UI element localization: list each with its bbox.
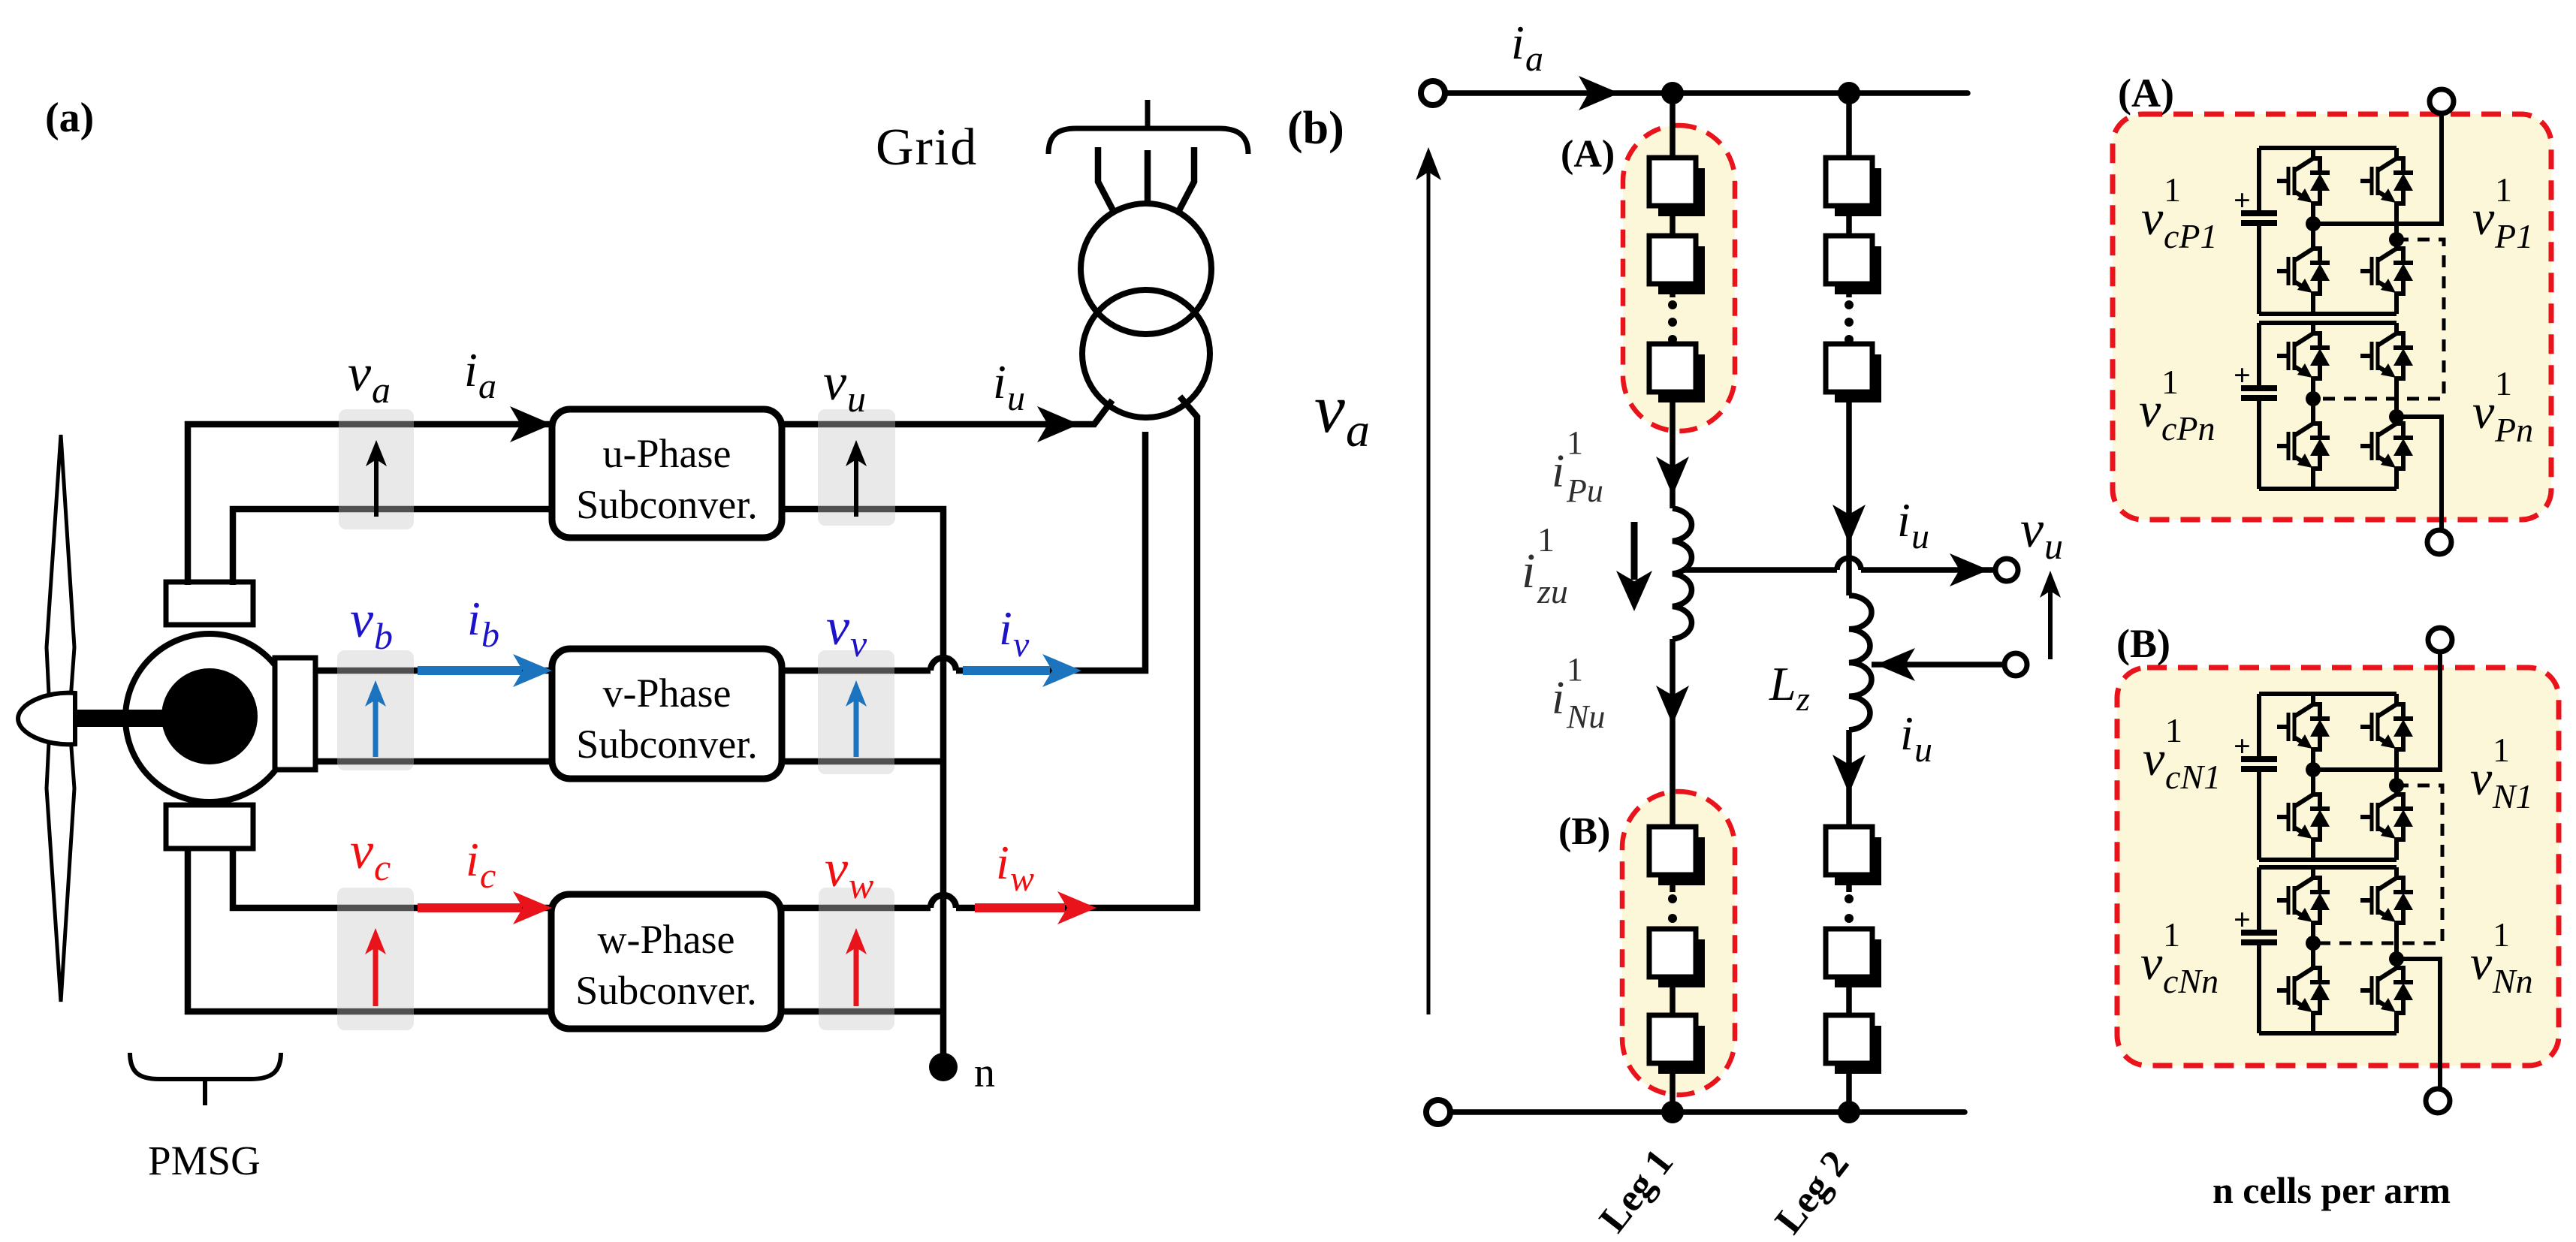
wire a-phase top: [188, 424, 552, 585]
svg-text:i: i: [1897, 493, 1911, 547]
svg-text:v-Phase: v-Phase: [603, 671, 731, 716]
svg-text:Nu: Nu: [1566, 698, 1605, 735]
arrow iw: [975, 891, 1096, 924]
svg-text:v: v: [2470, 936, 2493, 990]
cell rails: [2259, 867, 2397, 1033]
label izu: [1522, 520, 1568, 610]
svg-text:n: n: [974, 1050, 995, 1096]
label vc: [350, 822, 391, 888]
svg-text:Subconver.: Subconver.: [576, 482, 757, 527]
terminal box bottom: [166, 805, 253, 849]
svg-text:(B): (B): [1558, 810, 1610, 853]
terminal top-left: [1421, 81, 1445, 105]
svg-text:b: b: [481, 615, 499, 655]
leg link right: [2394, 943, 2399, 957]
svg-text:w: w: [1010, 859, 1034, 899]
igbt upper-right: [2360, 323, 2413, 399]
va reference arrow: [1427, 169, 1431, 1014]
svg-text:1: 1: [2161, 363, 2179, 401]
svg-text:v: v: [850, 623, 867, 665]
terminal bottom-left: [1426, 1100, 1450, 1124]
arrow ib: [418, 654, 552, 687]
svg-text:Pn: Pn: [2494, 411, 2533, 449]
svg-text:v: v: [2020, 501, 2044, 559]
svg-text:w-Phase: w-Phase: [598, 917, 735, 962]
svg-text:i: i: [1552, 446, 1564, 497]
generator circle: [125, 634, 294, 802]
terminal vu: [1995, 559, 2018, 581]
svg-text:n cells per arm: n cells per arm: [2213, 1169, 2451, 1211]
panel (A) dashed box: [2113, 114, 2551, 520]
label vb: [350, 591, 393, 657]
label iw: [996, 836, 1034, 899]
svg-text:Nn: Nn: [2492, 962, 2533, 1000]
label vcNn: [2140, 915, 2219, 1000]
label vcP1: [2141, 170, 2218, 255]
svg-text:v: v: [2472, 191, 2495, 246]
svg-text:v: v: [2470, 751, 2493, 806]
svg-text:a: a: [1525, 39, 1543, 79]
leg link left: [2311, 399, 2315, 413]
panel B terminal top: [2428, 628, 2452, 652]
svg-text:+: +: [2234, 729, 2251, 763]
capacitor: [2257, 323, 2261, 489]
node n: [929, 1053, 958, 1081]
svg-text:cN1: cN1: [2165, 758, 2221, 796]
vu polarity arrow: [2048, 584, 2053, 659]
wire b-phase bottom: [315, 758, 552, 765]
svg-text:+: +: [2234, 903, 2251, 936]
wind turbine blade upper: [47, 435, 74, 710]
leg 2 wire segments: [1846, 93, 1852, 1112]
igbt lower-right: [2360, 784, 2413, 860]
leg link right: [2394, 399, 2399, 413]
label iu: [993, 355, 1025, 418]
svg-text:+: +: [2234, 183, 2251, 217]
svg-text:b: b: [374, 615, 393, 657]
svg-text:1: 1: [2164, 170, 2181, 209]
arrow iv: [963, 654, 1081, 687]
igbt upper-left: [2277, 867, 2330, 943]
top bus wire: [1446, 90, 1968, 96]
svg-text:(A): (A): [1561, 133, 1615, 176]
svg-text:v: v: [825, 840, 849, 898]
svg-text:P1: P1: [2494, 217, 2533, 255]
label ia (b): [1511, 16, 1543, 79]
stator terminal box right: [275, 658, 315, 770]
junction dot leg2 bottom: [1838, 1101, 1860, 1123]
measurement box vc: [337, 888, 414, 1030]
svg-text:cNn: cNn: [2163, 962, 2219, 1000]
svg-text:N1: N1: [2492, 777, 2533, 815]
svg-text:cP1: cP1: [2164, 217, 2218, 255]
svg-text:v: v: [1314, 370, 1345, 447]
svg-text:a: a: [478, 366, 496, 406]
svg-text:v: v: [348, 345, 372, 402]
u-Phase subconverter box U: [552, 409, 782, 538]
svg-text:c: c: [374, 846, 391, 888]
wire a-phase bottom: [233, 509, 552, 585]
svg-text:a: a: [1346, 403, 1370, 457]
grid transformer lower circle: [1082, 290, 1210, 418]
panel B dashed link: [2315, 785, 2442, 943]
svg-text:z: z: [1796, 680, 1810, 718]
svg-text:1: 1: [2163, 915, 2180, 954]
wind turbine blade lower: [47, 727, 74, 1002]
rotor: [161, 668, 258, 764]
cell rails: [2259, 323, 2397, 489]
svg-text:1: 1: [2495, 364, 2512, 402]
wire b-phase top: [315, 668, 552, 674]
lower output wire iu: [1872, 662, 2004, 668]
panel B midpoint dots: [2306, 762, 2321, 777]
panel A dashed link: [2315, 240, 2444, 399]
label Lz: [1769, 657, 1810, 718]
svg-text:c: c: [480, 856, 496, 896]
cell rails: [2259, 148, 2397, 314]
wire v-phase output top with hop: [782, 418, 1145, 671]
PMSG underbrace: [130, 1053, 281, 1105]
leg 1 wire segments: [1670, 93, 1676, 1112]
svg-text:v: v: [826, 598, 850, 656]
label iPu: [1552, 424, 1603, 509]
wire u-phase output top: [782, 400, 1112, 424]
svg-text:u: u: [1007, 378, 1025, 418]
cell square: [1658, 837, 1705, 885]
panel B terminal bottom: [2426, 1089, 2450, 1113]
svg-text:Subconver.: Subconver.: [576, 722, 757, 767]
igbt upper-left: [2277, 148, 2330, 224]
igbt lower-left: [2277, 784, 2330, 860]
arrow leg2 lower: [1832, 755, 1866, 794]
label iNu: [1552, 651, 1605, 735]
output wire vu with hop over leg2: [1682, 558, 1995, 570]
dashed box (B) arm: [1622, 791, 1735, 1095]
arrow iu: [1037, 406, 1079, 442]
svg-text:(A): (A): [2118, 71, 2174, 116]
svg-text:1: 1: [1567, 424, 1583, 461]
igbt lower-right: [2360, 413, 2413, 489]
svg-text:1: 1: [1567, 651, 1583, 688]
svg-text:v: v: [350, 822, 374, 880]
panel A terminal top: [2430, 89, 2454, 113]
cell square: [1835, 1026, 1881, 1074]
panel A midpoint dots: [2306, 216, 2321, 231]
wire w-phase output bottom: [780, 1008, 943, 1015]
label vPn: [2472, 364, 2533, 449]
cell square: [1835, 939, 1881, 987]
svg-text:i: i: [999, 601, 1012, 655]
measurement box va: [339, 409, 414, 529]
igbt upper-right: [2360, 148, 2413, 224]
svg-text:Pu: Pu: [1566, 472, 1603, 509]
label va (b): [1314, 370, 1370, 457]
arrow ia: [510, 406, 552, 442]
svg-text:Grid: Grid: [876, 119, 978, 176]
svg-text:w: w: [849, 864, 873, 906]
svg-text:u: u: [1914, 730, 1932, 770]
svg-text:v: v: [2141, 191, 2164, 246]
igbt lower-left: [2277, 957, 2330, 1033]
wire c-phase bottom: [188, 847, 551, 1011]
svg-text:PMSG: PMSG: [148, 1138, 261, 1183]
svg-text:v: v: [2143, 731, 2165, 786]
svg-text:1: 1: [2495, 170, 2512, 209]
svg-text:zu: zu: [1537, 572, 1568, 610]
cell square: [1658, 354, 1705, 402]
igbt upper-left: [2277, 694, 2330, 770]
igbt lower-left: [2277, 238, 2330, 314]
cell rails: [2259, 694, 2397, 860]
label vu: [823, 354, 866, 420]
leg link left: [2311, 224, 2315, 238]
label ib: [467, 592, 499, 655]
arrow leg2 upper: [1832, 505, 1866, 544]
label ic: [466, 833, 496, 896]
leg 2 lower coil Lz: [1849, 595, 1872, 730]
igbt upper-left: [2277, 323, 2330, 399]
svg-text:v: v: [823, 354, 847, 411]
wire u-phase output bottom to neutral bus: [782, 509, 943, 1067]
measurement box vb: [337, 650, 414, 770]
label vv: [826, 598, 867, 665]
svg-text:v: v: [2140, 936, 2163, 990]
wire v-phase output bottom: [782, 758, 943, 765]
arrow iu into coil: [1876, 648, 1915, 681]
svg-text:u: u: [847, 378, 866, 420]
label vcPn: [2139, 363, 2216, 448]
svg-text:i: i: [464, 343, 478, 396]
label vNn: [2470, 915, 2533, 1000]
cell square: [1835, 168, 1881, 216]
grid transformer upper circle: [1081, 203, 1211, 334]
svg-text:+: +: [2234, 358, 2251, 392]
junction dot leg1 bottom: [1661, 1101, 1684, 1123]
w-Phase subconverter box W: [551, 894, 781, 1029]
svg-text:v: v: [350, 591, 374, 649]
svg-text:L: L: [1769, 657, 1796, 710]
leg link right: [2394, 770, 2399, 784]
capacitor: [2257, 148, 2261, 314]
svg-text:i: i: [467, 592, 481, 645]
svg-text:i: i: [1552, 673, 1564, 724]
grid transformer bottom stub center: [1142, 418, 1149, 419]
dots between cells leg1 upper: [1668, 300, 1854, 923]
wire w-phase output top with hop: [780, 396, 1197, 908]
terminal box top: [166, 582, 253, 625]
panel B output wires: [2313, 652, 2440, 1090]
junction dot leg1 top: [1661, 82, 1684, 104]
panel A terminal bottom: [2427, 530, 2451, 554]
leg link right: [2394, 224, 2399, 238]
measurement box vv: [818, 650, 894, 774]
arrow ic: [418, 891, 552, 924]
dashed box (A) arm: [1623, 125, 1735, 431]
leg link left: [2311, 770, 2315, 784]
svg-text:u: u: [1911, 517, 1929, 556]
junction dot leg2 top: [1838, 82, 1860, 104]
leg link left: [2311, 943, 2315, 957]
shaft: [66, 710, 179, 727]
label ia: [464, 343, 496, 406]
cell square: [1658, 1026, 1705, 1074]
cell square: [1835, 246, 1881, 294]
svg-text:u-Phase: u-Phase: [603, 431, 731, 476]
nose cone: [18, 693, 75, 745]
v-Phase subconverter box V: [552, 649, 782, 779]
arrow iNu: [1656, 686, 1689, 725]
label vN1: [2470, 731, 2533, 815]
cell square: [1658, 939, 1705, 987]
svg-text:i: i: [1900, 707, 1914, 760]
cell square: [1658, 246, 1705, 294]
terminal lower: [2004, 653, 2027, 676]
label vP1: [2472, 170, 2533, 255]
capacitor: [2257, 867, 2261, 1033]
svg-text:(B): (B): [2116, 621, 2170, 666]
svg-text:i: i: [993, 355, 1006, 408]
wire c-phase top: [233, 847, 551, 908]
svg-text:Subconver.: Subconver.: [575, 968, 756, 1013]
leg 1 upper coil: [1673, 508, 1691, 639]
panel A output wires: [2313, 113, 2442, 531]
igbt upper-right: [2360, 694, 2413, 770]
arrow izu: [1631, 522, 1638, 580]
arrow iPu: [1656, 457, 1689, 496]
label iu lower: [1900, 707, 1932, 770]
cell square: [1835, 837, 1881, 885]
label vcN1: [2143, 711, 2221, 796]
svg-text:v: v: [2139, 383, 2161, 438]
svg-text:i: i: [466, 833, 479, 886]
label vw: [825, 840, 873, 906]
svg-text:(b): (b): [1287, 103, 1344, 154]
label vu terminal: [2020, 501, 2063, 567]
svg-text:1: 1: [2493, 915, 2510, 954]
label iu upper: [1897, 493, 1929, 556]
igbt lower-right: [2360, 238, 2413, 314]
bottom bus wire: [1451, 1109, 1965, 1115]
svg-text:a: a: [372, 369, 391, 411]
grid transformer top stubs: [1098, 147, 1194, 213]
measurement box vu: [818, 409, 895, 526]
measurement box vw: [819, 888, 894, 1030]
svg-text:i: i: [996, 836, 1009, 889]
cell square: [1835, 354, 1881, 402]
panel (B) dashed box: [2117, 668, 2559, 1066]
arrow ia (b): [1579, 76, 1619, 110]
svg-text:(a): (a): [45, 95, 94, 141]
svg-text:u: u: [2044, 525, 2063, 567]
label iv: [999, 601, 1030, 665]
label va: [348, 345, 391, 411]
igbt upper-right: [2360, 867, 2413, 943]
svg-text:i: i: [1511, 16, 1525, 69]
cell square: [1658, 168, 1705, 216]
svg-text:i: i: [1522, 544, 1535, 598]
svg-text:v: v: [1013, 625, 1030, 665]
svg-text:1: 1: [2165, 711, 2182, 749]
arrow vu out: [1950, 553, 1989, 586]
svg-text:cPn: cPn: [2161, 409, 2216, 448]
igbt lower-left: [2277, 413, 2330, 489]
svg-text:1: 1: [2493, 731, 2510, 769]
igbt lower-right: [2360, 957, 2413, 1033]
cells: squares with shadow: [1649, 158, 1881, 1074]
grid overbrace: [1048, 100, 1248, 154]
svg-text:1: 1: [1537, 520, 1555, 559]
svg-text:v: v: [2472, 384, 2495, 439]
capacitor: [2257, 694, 2261, 860]
